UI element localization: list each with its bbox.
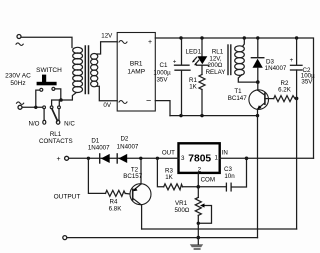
terminal output minus bbox=[63, 236, 67, 240]
svg-text:35V: 35V bbox=[301, 78, 313, 85]
label T1 BC147 bbox=[228, 88, 247, 102]
relay coil RL1 bbox=[228, 45, 231, 75]
node COM bbox=[197, 185, 201, 189]
wire relay coil top to rail bbox=[243, 38, 245, 47]
svg-text:+: + bbox=[290, 57, 294, 64]
wire pole stub bbox=[52, 100, 61, 106]
wire bridge minus output bbox=[155, 101, 170, 116]
node relay/D3/T1 collector bbox=[256, 80, 260, 84]
pin number 2 bbox=[198, 167, 202, 174]
wire junction to NC contact bbox=[58, 100, 60, 106]
node R2/C2 bbox=[295, 97, 299, 101]
wire T1 emitter down to output rail bbox=[257, 116, 259, 238]
label C1 1000u 35V bbox=[153, 62, 171, 84]
node ground rail bbox=[197, 236, 201, 240]
regulator U1 7805 bbox=[179, 143, 220, 173]
label D1 1N4007 bbox=[88, 137, 110, 151]
svg-text:6.2K: 6.2K bbox=[278, 87, 292, 94]
label RL1 CONTACTS bbox=[39, 131, 73, 145]
resistor R3 bbox=[164, 184, 197, 190]
svg-text:6.8K: 6.8K bbox=[109, 205, 123, 212]
label LED1 bbox=[186, 48, 202, 55]
svg-text:+: + bbox=[57, 156, 61, 163]
svg-text:1: 1 bbox=[215, 154, 219, 161]
label IN bbox=[222, 150, 228, 157]
wire top input to transformer primary bbox=[21, 37, 72, 47]
svg-text:−: − bbox=[146, 95, 151, 105]
svg-text:IN: IN bbox=[222, 150, 228, 157]
label N/O bbox=[28, 120, 39, 127]
svg-text:N/C: N/C bbox=[64, 120, 75, 127]
svg-text:C1: C1 bbox=[160, 62, 168, 69]
switch SWITCH (push button) bbox=[37, 75, 57, 92]
terminal J2 (line input bottom) bbox=[17, 102, 24, 109]
svg-text:CONTACTS: CONTACTS bbox=[39, 138, 73, 145]
wire +12V rail bbox=[155, 38, 313, 158]
ground bbox=[190, 244, 203, 250]
label 12V bbox=[101, 32, 113, 39]
bridge - mark bbox=[146, 95, 151, 105]
wire relay coil bottom to D3/T1 node bbox=[238, 75, 257, 82]
svg-text:D2: D2 bbox=[120, 136, 128, 143]
label D2 1N4007 bbox=[117, 136, 139, 151]
wire output minus rail bbox=[67, 237, 258, 239]
svg-text:1K: 1K bbox=[165, 174, 173, 181]
svg-text:OUTPUT: OUTPUT bbox=[54, 194, 81, 201]
diode D3 bbox=[251, 38, 263, 82]
wire OUT rail bbox=[69, 157, 179, 159]
svg-text:50Hz: 50Hz bbox=[10, 80, 25, 87]
label C2 100u 35V bbox=[301, 67, 315, 86]
label D3 1N4007 bbox=[265, 59, 287, 73]
svg-text:1N4007: 1N4007 bbox=[117, 143, 139, 150]
svg-text:BR1: BR1 bbox=[130, 61, 143, 68]
label OUT bbox=[162, 150, 175, 157]
resistor R1 bbox=[199, 65, 205, 115]
label R2 6.2K bbox=[278, 80, 292, 93]
svg-text:N/O: N/O bbox=[28, 120, 39, 127]
svg-text:3: 3 bbox=[181, 155, 185, 162]
bridge + mark bbox=[148, 39, 152, 46]
node R3 branch bbox=[156, 157, 159, 160]
wire IN bbox=[220, 157, 314, 159]
svg-text:BC157: BC157 bbox=[123, 173, 142, 180]
svg-text:OUT: OUT bbox=[162, 150, 175, 157]
svg-text:COM: COM bbox=[201, 177, 215, 184]
resistor R2 bbox=[274, 96, 297, 102]
wire junction to transformer primary bottom bbox=[61, 93, 76, 100]
node dots on 0V rail bbox=[179, 114, 259, 117]
diode D1 bbox=[100, 154, 110, 163]
svg-text:LED1: LED1 bbox=[186, 48, 202, 55]
wire sense rail (T2 collector to C2 bottom) bbox=[142, 228, 297, 230]
C2 plus mark bbox=[290, 57, 294, 64]
label SWITCH bbox=[36, 67, 62, 74]
svg-text:C3: C3 bbox=[224, 166, 232, 173]
node VR1 bottom bbox=[197, 222, 200, 225]
terminal J1 (line input top) bbox=[16, 35, 23, 46]
wire to ground bbox=[197, 238, 199, 245]
label N/C bbox=[64, 120, 75, 127]
svg-text:1AMP: 1AMP bbox=[127, 69, 145, 76]
wire secondary bottom to bridge (0V) bbox=[97, 86, 118, 101]
transformer X1 core bbox=[85, 46, 88, 94]
svg-text:10n: 10n bbox=[224, 173, 235, 180]
transformer X1 primary winding bbox=[73, 47, 83, 92]
svg-text:D1: D1 bbox=[91, 137, 99, 144]
wire down to R4 bbox=[88, 158, 105, 193]
label 7805 bbox=[188, 154, 211, 165]
label R4 6.8K bbox=[109, 199, 123, 213]
svg-text:+: + bbox=[173, 59, 177, 66]
wire secondary top to bridge (12V) bbox=[97, 42, 118, 54]
label 0V bbox=[103, 102, 111, 109]
node IN bbox=[245, 157, 249, 161]
svg-text:+: + bbox=[148, 39, 152, 46]
svg-text:SWITCH: SWITCH bbox=[36, 67, 62, 74]
wire down to R3 bbox=[157, 158, 163, 187]
potentiometer VR1 bbox=[195, 187, 211, 224]
wire 7805 pin2 down bbox=[197, 173, 199, 187]
svg-text:35V: 35V bbox=[156, 77, 168, 84]
svg-text:12V: 12V bbox=[101, 32, 113, 39]
capacitor C1 bbox=[175, 38, 191, 116]
node T2 emitter bbox=[139, 157, 142, 160]
svg-text:0V: 0V bbox=[103, 102, 111, 109]
wire to switch left pole bbox=[36, 90, 40, 107]
svg-text:1000µ: 1000µ bbox=[153, 70, 171, 77]
svg-text:1K: 1K bbox=[189, 84, 197, 91]
LED LED1 bbox=[192, 38, 208, 65]
label BR1 1AMP bbox=[127, 61, 145, 76]
transistor T1 bbox=[249, 82, 274, 116]
pin number 1 bbox=[215, 154, 219, 161]
bridge rectifier BR1 bbox=[117, 33, 155, 112]
label + output bbox=[57, 156, 61, 163]
diode D2 bbox=[117, 154, 127, 163]
transformer X1 secondary winding bbox=[91, 54, 98, 87]
label COM bbox=[201, 177, 215, 184]
label C3 10n bbox=[224, 166, 235, 180]
label VR1 500ohm bbox=[174, 200, 189, 214]
C1 plus mark bbox=[173, 59, 177, 66]
node R4 branch bbox=[87, 157, 90, 160]
junction switch/primary/NC bbox=[59, 98, 63, 102]
svg-text:RELAY: RELAY bbox=[206, 69, 226, 76]
wire 0V rail bbox=[170, 115, 258, 117]
label R1 1K bbox=[189, 77, 198, 91]
junction input/switch bbox=[34, 106, 37, 109]
terminal output plus bbox=[65, 156, 69, 160]
bridge ~ marks bbox=[119, 41, 127, 104]
svg-text:230V AC: 230V AC bbox=[5, 73, 31, 80]
svg-text:BC147: BC147 bbox=[228, 95, 247, 102]
svg-text:1N4007: 1N4007 bbox=[88, 144, 110, 151]
label T2 BC157 bbox=[123, 167, 142, 180]
wire VR1 to ground rail bbox=[197, 223, 199, 237]
wire COM rail to C3 bbox=[198, 186, 226, 188]
label RL1 12V 200ohm RELAY bbox=[206, 49, 226, 76]
label OUTPUT bbox=[54, 194, 81, 201]
transistor T2 bbox=[130, 158, 151, 229]
svg-text:7805: 7805 bbox=[188, 154, 211, 165]
node dots on +12V rail bbox=[179, 36, 298, 39]
relay contacts RL1 bbox=[43, 106, 61, 124]
pin number 3 bbox=[181, 155, 185, 162]
label R3 1K bbox=[165, 168, 174, 182]
svg-text:1N4007: 1N4007 bbox=[265, 65, 287, 72]
capacitor C3 bbox=[226, 158, 246, 191]
wire switch right pole down bbox=[55, 89, 61, 100]
label 230V AC 50Hz bbox=[5, 73, 31, 88]
wire bottom input to contacts bbox=[22, 106, 43, 108]
svg-text:500Ω: 500Ω bbox=[174, 207, 189, 214]
resistor R4 bbox=[106, 190, 130, 196]
capacitor C2 bbox=[291, 38, 303, 229]
